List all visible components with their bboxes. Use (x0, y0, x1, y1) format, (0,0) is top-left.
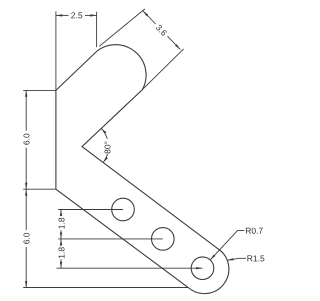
svg-text:R0.7: R0.7 (245, 226, 263, 236)
leader R0.7 arrow (210, 255, 215, 260)
dim 2.5 left extension line (55, 11, 57, 90)
hole 2 (152, 228, 175, 251)
svg-text:3.6: 3.6 (154, 22, 170, 38)
dim 6.0 upper dimension line (25, 90, 27, 130)
svg-text:1.8: 1.8 (56, 247, 66, 259)
dim 80 degree arc (101, 128, 107, 139)
hole 1 center extension line (58, 209, 123, 211)
hole 3 (191, 257, 214, 280)
dim 3.6 extension line 2 (142, 49, 183, 90)
dim 6.0 lower extension line at bottom tangent (23, 287, 188, 289)
dim 1.8 lower bottom arrow (60, 262, 62, 268)
svg-text:6.0: 6.0 (22, 133, 32, 145)
svg-text:6.0: 6.0 (22, 232, 32, 244)
svg-text:2.5: 2.5 (71, 10, 83, 20)
leader R1.5 arrow (227, 258, 234, 260)
dim 1.8 upper dimension line (60, 210, 62, 217)
hole 3 center line arrow (196, 267, 202, 269)
hole 3 center extension line (57, 267, 203, 269)
svg-text:R1.5: R1.5 (247, 253, 265, 263)
dim 3.6 upper arrow (143, 11, 148, 16)
dim 80 upper arrow (101, 128, 106, 133)
dim 2.5 left arrow (56, 14, 62, 16)
dim 6.0 upper extension line at corner A (23, 89, 56, 91)
svg-text:1.8: 1.8 (56, 217, 66, 229)
dim 2.5 dimension line (56, 14, 69, 16)
leader R1.5 (227, 258, 246, 260)
dim 2.5 right extension line (96, 12, 98, 48)
dim 6.0 upper bottom arrow (25, 183, 27, 189)
part outline (56, 45, 229, 294)
dim 1.8 lower top arrow (60, 239, 62, 245)
dim 6.0 lower bottom arrow (25, 281, 27, 287)
dim 3.6 extension line 1 (99, 9, 145, 46)
dim 80 lower arrow (103, 157, 108, 163)
dim 3.6 dimension line (143, 11, 156, 24)
dim 3.6 lower arrow (175, 44, 180, 49)
dim 6.0 shared extension line at corner B (23, 188, 56, 190)
hole 2 center extension line (58, 238, 163, 240)
dim 1.8 lower dimension line (60, 239, 62, 246)
dim 6.0 lower dimension line (25, 189, 27, 230)
dim 6.0 lower top arrow (25, 189, 27, 195)
hole 1 (112, 198, 135, 221)
svg-text:80°: 80° (103, 141, 113, 154)
dim 1.8 upper top arrow (60, 210, 62, 216)
leader R0.7 (210, 231, 244, 260)
dim 2.5 right arrow (90, 14, 96, 16)
dim 6.0 upper top arrow (25, 90, 27, 96)
dim 1.8 upper bottom arrow (60, 233, 62, 239)
